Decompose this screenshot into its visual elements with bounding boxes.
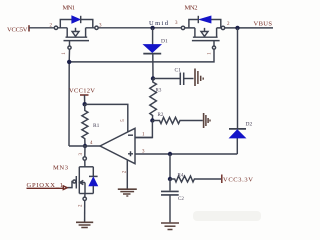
ground MN3: [76, 222, 93, 227]
svg-text:D2: D2: [246, 122, 253, 128]
svg-text:2: 2: [227, 22, 230, 27]
ground op-amp pin 2: [118, 189, 137, 196]
faint smudge bottom right (scan artifact): [193, 211, 261, 221]
resistor R1: [82, 104, 88, 146]
svg-text:VCC3.3V: VCC3.3V: [223, 177, 253, 184]
port VCC5V: [7, 25, 56, 33]
svg-text:2: 2: [79, 204, 84, 207]
right rail VBUS down: [236, 28, 238, 154]
svg-text:4: 4: [90, 141, 93, 146]
svg-text:D1: D1: [161, 39, 168, 45]
wire junction down to R4/C2: [169, 154, 171, 179]
svg-text:5: 5: [121, 119, 126, 122]
transistor MN2: [183, 16, 223, 49]
svg-text:VBUS: VBUS: [254, 21, 273, 28]
wire MN2 to VBUS: [223, 27, 273, 29]
svg-text:1: 1: [62, 52, 67, 55]
svg-text:2: 2: [122, 170, 127, 173]
svg-text:MN2: MN2: [185, 5, 198, 12]
junction bottom rail: [168, 152, 172, 156]
junction R4/C2: [168, 177, 172, 181]
capacitor C1: [153, 73, 194, 86]
junction D1/R3/C1 node: [151, 76, 155, 80]
junction VBUS rail: [235, 26, 239, 30]
resistor R4: [170, 176, 221, 182]
pin circle MN2 right: [221, 26, 224, 29]
wire rail corner to op-amp output: [69, 145, 100, 147]
wire MN1 gate down: [68, 49, 71, 146]
svg-text:R3: R3: [156, 89, 162, 94]
diode D1: [143, 28, 161, 79]
svg-text:3: 3: [79, 153, 84, 156]
svg-text:R2: R2: [158, 113, 164, 118]
wire gate bus to MN2: [69, 49, 214, 62]
ground sideways C1: [195, 69, 203, 87]
svg-text:MN3: MN3: [53, 165, 68, 172]
wire top rail MN1 to MN2: [97, 27, 184, 29]
node 4: junction rail/R1/op-amp out/MN3: [83, 144, 87, 148]
svg-text:R1: R1: [93, 123, 100, 129]
svg-text:MN1: MN1: [63, 5, 76, 12]
port GPIOXX_1: [27, 182, 68, 190]
wire to op-amp pin 5: [85, 104, 128, 132]
junction R3/R2/pin1: [150, 118, 154, 122]
junction VCC12V/R1/pin5: [83, 102, 87, 106]
svg-text:1: 1: [142, 133, 145, 138]
svg-text:R4: R4: [178, 174, 184, 179]
diode D2: [229, 129, 246, 138]
svg-text:C1: C1: [175, 68, 182, 74]
capacitor C2: [161, 179, 179, 222]
pin circle MN1 left: [54, 26, 57, 29]
svg-text:1: 1: [207, 52, 212, 55]
pin circle MN1 right: [95, 26, 98, 29]
junction gate node: [67, 60, 71, 64]
resistor R3: [150, 79, 157, 121]
pin circle MN2 left: [181, 26, 184, 29]
transistor MN1: [56, 16, 97, 49]
port VCC3.3V: [221, 175, 223, 184]
ground sideways R2: [204, 113, 210, 128]
svg-text:VCC5V: VCC5V: [7, 27, 28, 34]
op-amp U1: [100, 128, 170, 188]
transistor MN3: [67, 146, 97, 222]
wire bottom rail (+input to D2): [170, 153, 237, 155]
svg-text:C2: C2: [178, 197, 184, 202]
wire R2 node to op-amp pin 1: [135, 121, 152, 138]
svg-text:3: 3: [175, 21, 178, 26]
port VCC12V: [80, 95, 89, 104]
svg-text:VCC12V: VCC12V: [69, 88, 95, 95]
junction Umid / D1: [150, 26, 154, 30]
resistor R2: [152, 117, 202, 123]
ground C2: [161, 223, 179, 230]
